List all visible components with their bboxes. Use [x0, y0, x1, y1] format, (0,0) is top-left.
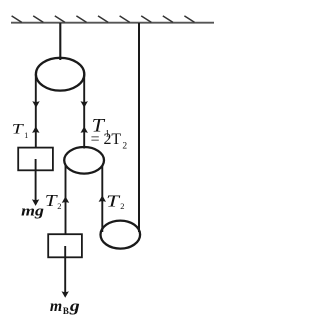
rope from movable pulley right side down to bottom pulley: [101, 166, 103, 233]
up tension arrowhead T2 on left rope of movable pulley: [62, 196, 69, 203]
movable pulley (middle): [64, 147, 104, 174]
svg-text:g: g: [69, 298, 80, 315]
support rod to top pulley: [59, 23, 61, 60]
bottom pulley: [101, 221, 141, 249]
ceiling: [11, 22, 214, 24]
rope left of top pulley down to block m: [35, 74, 37, 148]
top pulley: [36, 58, 84, 91]
mB g weight line: [64, 246, 66, 296]
long rope from ceiling down to bottom pulley right side: [138, 23, 140, 232]
up tension arrowhead T1 on left rope: [32, 126, 39, 133]
up tension arrowhead T2 on rope to bottom pulley: [99, 195, 106, 202]
mB g down arrowhead: [62, 291, 69, 298]
ceiling hatch marks: [12, 16, 195, 23]
mg weight line: [35, 159, 37, 204]
rope from movable pulley left side down to block B: [65, 166, 67, 235]
down tension arrowhead on left rope: [32, 101, 39, 108]
svg-text:m: m: [50, 298, 62, 315]
svg-text:T: T: [12, 121, 24, 137]
rope right of top pulley down to movable pulley: [83, 74, 85, 149]
svg-text:= 2T: = 2T: [91, 131, 122, 148]
svg-text:2: 2: [120, 201, 124, 211]
svg-text:T: T: [106, 192, 121, 211]
svg-text:mg: mg: [21, 203, 44, 219]
block B (lower): [48, 234, 82, 257]
block m (upper left): [18, 148, 53, 171]
svg-text:B: B: [63, 306, 69, 316]
down tension arrowhead on right rope: [81, 101, 88, 108]
svg-text:1: 1: [24, 131, 28, 140]
mg down arrowhead: [32, 199, 39, 206]
svg-text:2: 2: [57, 201, 61, 211]
up tension arrowhead T1 on right rope: [81, 126, 88, 133]
svg-text:2: 2: [122, 142, 127, 152]
